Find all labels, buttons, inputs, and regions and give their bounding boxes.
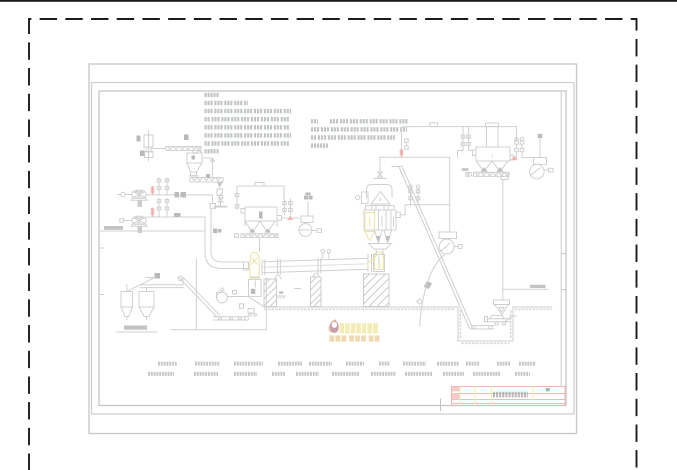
F2 clean air riser bbox=[486, 123, 499, 147]
red relief marker on riser bbox=[400, 150, 403, 157]
F1 outlet duct to fan bbox=[282, 217, 300, 219]
signature column line bbox=[561, 92, 566, 387]
blower B2 discharge pipe bbox=[146, 217, 205, 231]
blower discharge pipe to junction bbox=[146, 195, 212, 204]
title block yellow separators bbox=[460, 387, 533, 404]
title block drawing name (greeked) bbox=[493, 392, 528, 398]
exhaust fan K2 bbox=[530, 138, 554, 179]
ground line with pit bbox=[265, 307, 552, 343]
discharge stack to pier bbox=[374, 255, 385, 272]
silencer block on B2 line (dark) bbox=[174, 213, 181, 217]
ledge hatch right of P1 bbox=[277, 289, 301, 298]
bucket elevator E1 bbox=[144, 131, 153, 161]
process notes text block 2 (greeked) bbox=[311, 121, 408, 145]
legend row 2 (greeked) bbox=[148, 372, 530, 376]
pressure relief valve R2 (red) bbox=[151, 208, 154, 217]
title block filled cells (pink) bbox=[452, 387, 460, 400]
furnace side fitting bbox=[244, 262, 260, 277]
baseline under packer bbox=[117, 331, 157, 333]
F1 dust drop pipe bbox=[259, 237, 261, 252]
elevator head flange band bbox=[366, 206, 395, 211]
screw conveyor under F1 bbox=[235, 234, 279, 238]
label bar left bbox=[104, 226, 123, 230]
rotary discharge valve under S2 bbox=[215, 182, 227, 207]
pit mobile feeder bbox=[485, 316, 517, 326]
top solid border line bbox=[0, 0, 677, 2]
F2 outlet valves bbox=[513, 127, 533, 158]
inclined belt conveyor bbox=[178, 276, 220, 317]
K1 silencer cluster (dark) bbox=[304, 193, 313, 200]
pit feed funnel bbox=[494, 300, 510, 315]
valve pair risers on B1 line bbox=[157, 178, 169, 195]
process notes text block 1 (greeked) bbox=[205, 95, 292, 151]
surge hopper H1 bbox=[187, 153, 202, 176]
F2 inlet valves bbox=[458, 127, 473, 158]
svg-text:(: ( bbox=[492, 153, 494, 158]
screw conveyor S2 bbox=[190, 174, 223, 182]
silo feed label bbox=[128, 273, 160, 291]
classifier right stub bbox=[396, 212, 401, 218]
red tee marker T2 bbox=[511, 156, 518, 161]
hot air duct elbows to furnace bbox=[205, 209, 248, 269]
valve columns near classifier bbox=[400, 185, 449, 215]
supply line along left bbox=[100, 230, 206, 232]
junction box J1 bbox=[210, 204, 219, 209]
equipment number labels near elevator bbox=[137, 135, 189, 157]
discharge chamber under drum bbox=[240, 279, 265, 316]
legend row 1 (greeked) bbox=[158, 362, 536, 366]
drawing border frame bbox=[99, 91, 566, 406]
furnace room enclosure bbox=[195, 259, 197, 330]
riser valves with red handle bbox=[405, 139, 409, 149]
product duct to silos bbox=[140, 278, 183, 288]
logo company name (pale yellow, greeked) bbox=[340, 323, 380, 333]
foundation pier P3 (hatched) bbox=[364, 274, 390, 307]
secondary fan K3 bbox=[217, 288, 249, 303]
svg-text:5: 5 bbox=[379, 197, 382, 202]
butterfly valve set V1 (dark) bbox=[175, 192, 187, 198]
cone dust fills (dark) bbox=[376, 236, 391, 242]
exhaust fan K1 bbox=[299, 202, 322, 236]
hot air furnace (yellow) bbox=[250, 253, 259, 279]
K2 stack label (dark) bbox=[538, 134, 543, 138]
F1 hopper dust cones (dark) bbox=[249, 228, 271, 232]
screw conveyor under F2 bbox=[463, 170, 509, 180]
belt drive unit (dark) bbox=[424, 281, 432, 289]
screw conveyor S1 bbox=[151, 147, 202, 154]
feed line from right with label bbox=[503, 285, 549, 290]
cyclone silo C1 bbox=[121, 285, 133, 320]
cyclone silo C2 bbox=[139, 288, 154, 320]
F2 dust drop line to pit bbox=[502, 180, 504, 301]
foundation pier P1 (hatched) bbox=[264, 279, 277, 307]
inclined belt conveyor (large) bbox=[392, 166, 472, 328]
pressure relief valve R1 (red) bbox=[151, 187, 154, 195]
valve cluster right of F1 bbox=[283, 199, 293, 215]
outer frame bbox=[89, 64, 577, 434]
hopper side pipe with valve bbox=[202, 158, 215, 177]
F2 dust cones (dark) bbox=[481, 167, 504, 171]
drum exhaust riser and bypass duct bbox=[380, 127, 450, 169]
sheet frame bbox=[92, 83, 575, 415]
elevator boot in pit bbox=[471, 326, 494, 330]
manufacturer logo watermark bbox=[329, 320, 339, 333]
packer label bar bbox=[124, 326, 147, 330]
main exhaust duct to bag filter F2 bbox=[408, 123, 517, 134]
classifier highlighted cell (yellow) bbox=[365, 213, 375, 241]
foundation pier P2 (hatched) bbox=[311, 277, 322, 307]
bottom fold mark bbox=[440, 399, 442, 411]
return air line bbox=[171, 278, 266, 330]
roots blower B1 bbox=[118, 190, 148, 207]
valve pair risers on B2 line bbox=[157, 199, 169, 218]
spout highlight (yellow) bbox=[368, 255, 378, 267]
classifier discharge cones bbox=[375, 231, 392, 244]
red tee marker T1 bbox=[287, 216, 294, 220]
classifier body bbox=[364, 210, 396, 230]
collector trough bbox=[369, 244, 392, 255]
small mark on left frame bbox=[100, 248, 104, 295]
rotary dryer drum bbox=[262, 255, 372, 275]
valves on F1 left downcomer bbox=[235, 194, 239, 210]
flexible down spout duct bbox=[417, 255, 444, 326]
circulating fan K4 bbox=[439, 157, 462, 254]
logo slogan (pale orange, greeked) bbox=[330, 335, 381, 341]
dryer discharge head (yellow) bbox=[375, 252, 384, 270]
drum support rollers bbox=[275, 273, 320, 279]
title block red grid bbox=[452, 387, 566, 406]
bag filter F1 casing top bbox=[237, 183, 284, 205]
bag filter F1 body bbox=[241, 207, 282, 233]
bag filter F2 body bbox=[473, 147, 514, 172]
elevator head vent valve bbox=[374, 169, 386, 179]
bottom belt conveyor bbox=[214, 316, 249, 320]
elevator head housing bbox=[355, 185, 392, 205]
roots blower B2 bbox=[120, 216, 147, 233]
pipe fitting pair (dark) bbox=[213, 229, 221, 234]
drum top instrument stems bbox=[321, 250, 331, 259]
title block rev square bbox=[546, 388, 550, 391]
